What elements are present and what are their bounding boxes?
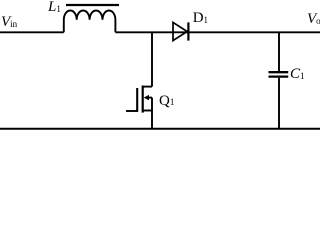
diode D1 bbox=[173, 22, 188, 40]
wire input rail from Vin to inductor bbox=[0, 31, 64, 33]
label Vin bbox=[1, 15, 17, 30]
label L1 bbox=[48, 0, 61, 15]
wire source of Q1 to bottom rail bbox=[151, 111, 153, 129]
body arrow stub bbox=[148, 97, 152, 99]
inductor L1 core bar bbox=[66, 4, 119, 6]
channel bar bbox=[142, 86, 144, 113]
wire bottom return rail bbox=[0, 128, 320, 130]
transistor Q1 (n-channel MOSFET) bbox=[126, 86, 152, 113]
capacitor C1 bbox=[269, 72, 289, 76]
source stub bbox=[143, 110, 152, 112]
inductor L1 bbox=[64, 10, 116, 32]
label C1 bbox=[290, 67, 305, 82]
body arrowhead bbox=[144, 95, 149, 100]
wire capacitor branch bottom bbox=[278, 78, 280, 129]
wire drain of Q1 to top rail bbox=[151, 32, 153, 86]
wire gate lead bbox=[126, 110, 137, 112]
wire body to source bbox=[151, 98, 153, 111]
wire capacitor branch top bbox=[278, 32, 280, 71]
label D1 bbox=[193, 11, 208, 26]
wire top rail from inductor to output (through D1 anode and cathode) bbox=[115, 31, 320, 33]
gate bar bbox=[136, 88, 138, 112]
label Vo bbox=[307, 12, 320, 27]
drain stub bbox=[143, 86, 152, 88]
label Q1 bbox=[159, 94, 174, 109]
